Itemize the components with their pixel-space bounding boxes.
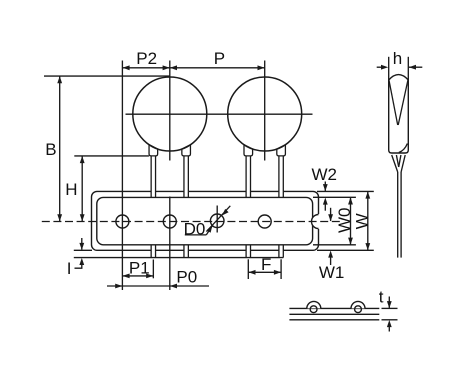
lead cut-end line (74, 257, 283, 259)
dimension W (352, 191, 371, 250)
svg-text:B: B (45, 140, 56, 159)
dimension W0 (335, 197, 354, 245)
extension line through hole 2 (169, 197, 171, 291)
lead L2 stub below tape (184, 245, 188, 258)
h extension lines (body edges extended) (389, 57, 409, 81)
dimension B top extension line (44, 75, 170, 77)
tape feed centerline (dashed) (42, 221, 340, 223)
tape right edge notch (312, 214, 321, 229)
disc component 2 body (228, 77, 302, 151)
dimension P1 (122, 258, 153, 278)
lead L1 stub below tape (151, 245, 155, 258)
bottom detail: tape section bottom line (289, 319, 379, 321)
svg-text:H: H (65, 180, 77, 199)
svg-text:t: t (379, 287, 384, 306)
svg-text:P2: P2 (136, 49, 157, 68)
lead L4 upper segment (279, 156, 283, 197)
dimension F (248, 255, 281, 275)
dimension W2 (312, 165, 338, 211)
dimension I (67, 238, 84, 278)
svg-text:P0: P0 (176, 268, 197, 287)
dimension W1 (319, 208, 345, 282)
dimension P2 (122, 49, 169, 70)
disc component 1 body (133, 77, 207, 151)
tape bottom edge extension (left) (74, 249, 92, 251)
bottom detail: tape section middle line (289, 313, 379, 315)
sprocket hole 3 (D0 reference) (210, 206, 224, 233)
dimension t extension ticks (382, 308, 398, 319)
svg-text:F: F (261, 255, 271, 274)
dimension P0 (107, 268, 209, 289)
disc 2 vertical centerline (264, 61, 266, 161)
lead collar C1 (149, 145, 158, 156)
adhesive hold-down tape (inner rectangle) (97, 197, 313, 244)
side view wire (398, 172, 401, 258)
lead L1 upper segment (151, 156, 155, 197)
dimension H extension line (74, 155, 149, 157)
dimension D0 diameter line (206, 206, 230, 232)
svg-text:W0: W0 (335, 208, 354, 234)
right side extension lines (tape edges) (313, 191, 374, 250)
lead collar C3 (244, 145, 253, 156)
bottom detail: tape section top line (289, 307, 379, 309)
lead collar C2 (182, 145, 191, 156)
sprocket hole 4 (258, 215, 271, 228)
side view inner disc taper (V) lines (389, 80, 408, 125)
dimension h (377, 49, 423, 70)
svg-text:I: I (67, 259, 72, 278)
dimension D0 label and leader (184, 219, 213, 238)
lead L3 stub below tape (246, 245, 250, 258)
dimension P (170, 49, 265, 70)
side view component body (389, 75, 409, 153)
sprocket hole 1 (116, 215, 129, 228)
bottom detail: lead bump 2 (351, 301, 365, 312)
svg-text:P: P (214, 49, 225, 68)
side view crimp curve (399, 144, 408, 153)
svg-text:P1: P1 (129, 258, 150, 277)
dimension B (45, 76, 62, 221)
svg-text:W: W (352, 213, 371, 229)
svg-text:W2: W2 (312, 165, 338, 184)
horizontal centerline through discs (126, 113, 313, 115)
disc 1 vertical centerline (169, 61, 171, 161)
lead collar C4 (277, 145, 286, 156)
svg-text:h: h (393, 49, 402, 68)
dimension P1 extension line (152, 260, 154, 279)
side view lead converge lines (392, 155, 406, 172)
dimension t (379, 287, 392, 331)
bottom detail: lead bump 1 (307, 301, 321, 312)
dimension H (65, 156, 84, 222)
svg-text:W1: W1 (319, 263, 345, 282)
extension line through hole 1 (121, 61, 123, 291)
carrier tape outer body (92, 191, 319, 250)
lead L2 upper segment (184, 156, 188, 197)
sprocket hole 2 (163, 215, 176, 228)
lead L4 stub below tape (279, 245, 283, 258)
dimension F extension lines (248, 259, 281, 279)
lead L3 upper segment (246, 156, 250, 197)
